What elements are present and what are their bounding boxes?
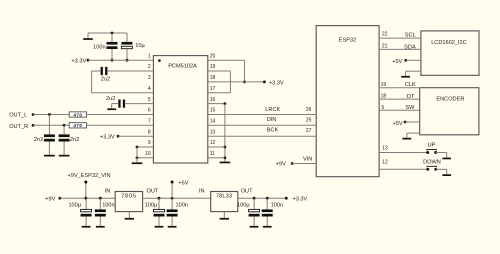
svg-text:+3.3V: +3.3V bbox=[71, 59, 86, 65]
svg-text:2u2: 2u2 bbox=[106, 96, 115, 102]
svg-text:18: 18 bbox=[210, 75, 216, 81]
svg-text:7: 7 bbox=[148, 119, 151, 125]
svg-text:+5V: +5V bbox=[392, 59, 402, 65]
svg-text:470: 470 bbox=[73, 123, 82, 128]
svg-text:+9V_ESP32_VIN: +9V_ESP32_VIN bbox=[67, 173, 110, 179]
svg-text:OUT_R: OUT_R bbox=[9, 124, 28, 130]
svg-text:1: 1 bbox=[148, 53, 151, 59]
svg-text:IN: IN bbox=[199, 188, 205, 194]
svg-text:+3.3V: +3.3V bbox=[269, 81, 284, 87]
svg-text:PCM5102A: PCM5102A bbox=[168, 64, 197, 70]
svg-text:VIN: VIN bbox=[303, 156, 312, 162]
svg-text:15: 15 bbox=[210, 108, 216, 114]
svg-text:19: 19 bbox=[381, 82, 387, 88]
svg-text:9: 9 bbox=[148, 140, 151, 146]
svg-text:13: 13 bbox=[210, 129, 216, 135]
svg-text:BCK: BCK bbox=[267, 127, 279, 133]
svg-text:UP: UP bbox=[428, 143, 436, 149]
svg-text:11: 11 bbox=[210, 151, 215, 157]
svg-text:12: 12 bbox=[210, 140, 216, 146]
svg-text:OUT: OUT bbox=[241, 189, 253, 195]
svg-text:6: 6 bbox=[148, 108, 151, 114]
svg-text:25: 25 bbox=[306, 117, 312, 123]
svg-text:100µ: 100µ bbox=[145, 203, 158, 209]
svg-text:18: 18 bbox=[381, 94, 387, 100]
svg-text:17: 17 bbox=[210, 86, 216, 92]
svg-text:5: 5 bbox=[382, 105, 385, 111]
svg-text:3: 3 bbox=[148, 75, 151, 81]
svg-text:5: 5 bbox=[148, 97, 151, 103]
svg-text:100n: 100n bbox=[102, 203, 114, 209]
svg-text:10: 10 bbox=[145, 151, 151, 157]
svg-text:14: 14 bbox=[210, 119, 216, 125]
svg-text:DIN: DIN bbox=[267, 117, 277, 123]
svg-text:13: 13 bbox=[382, 146, 388, 152]
svg-text:21: 21 bbox=[382, 43, 388, 49]
svg-text:100µ: 100µ bbox=[68, 203, 81, 209]
svg-text:4: 4 bbox=[148, 86, 151, 92]
svg-text:IN: IN bbox=[105, 188, 111, 194]
svg-text:12: 12 bbox=[382, 159, 388, 165]
svg-text:OUT: OUT bbox=[147, 189, 159, 195]
svg-text:470: 470 bbox=[73, 112, 82, 117]
svg-text:+5V: +5V bbox=[178, 180, 188, 186]
svg-text:SCL: SCL bbox=[405, 33, 416, 39]
svg-text:100n: 100n bbox=[271, 203, 283, 209]
svg-text:DOWN: DOWN bbox=[423, 159, 441, 165]
svg-text:2n2: 2n2 bbox=[70, 137, 79, 143]
svg-text:8: 8 bbox=[148, 129, 151, 135]
svg-text:CLK: CLK bbox=[405, 82, 416, 88]
svg-text:100n: 100n bbox=[93, 45, 105, 51]
svg-text:2u2: 2u2 bbox=[101, 77, 110, 83]
svg-text:10µ: 10µ bbox=[135, 43, 145, 49]
svg-text:19: 19 bbox=[210, 64, 216, 70]
svg-text:26: 26 bbox=[306, 107, 312, 113]
svg-text:16: 16 bbox=[210, 97, 216, 103]
svg-text:SDA: SDA bbox=[404, 44, 416, 50]
svg-text:+9V: +9V bbox=[45, 196, 55, 202]
svg-text:100n: 100n bbox=[176, 203, 188, 209]
svg-text:+3.3V: +3.3V bbox=[100, 135, 115, 141]
svg-text:2n2: 2n2 bbox=[34, 137, 43, 143]
svg-text:ESP32: ESP32 bbox=[339, 37, 356, 43]
svg-text:SW: SW bbox=[405, 105, 415, 111]
svg-text:LCD1602_I2C: LCD1602_I2C bbox=[431, 40, 466, 46]
svg-text:+9V: +9V bbox=[276, 161, 286, 167]
svg-text:+3.3V: +3.3V bbox=[293, 197, 308, 203]
svg-text:OUT_L: OUT_L bbox=[9, 112, 27, 118]
svg-text:27: 27 bbox=[306, 128, 312, 134]
svg-text:2: 2 bbox=[148, 64, 151, 70]
svg-text:20: 20 bbox=[210, 53, 216, 59]
svg-text:22: 22 bbox=[382, 32, 388, 38]
svg-text:+5V: +5V bbox=[392, 121, 402, 127]
svg-text:78L33: 78L33 bbox=[216, 194, 232, 200]
svg-text:7805: 7805 bbox=[121, 194, 137, 200]
svg-text:100µ: 100µ bbox=[237, 203, 250, 209]
svg-text:ENCODER: ENCODER bbox=[436, 96, 464, 102]
svg-text:DT: DT bbox=[407, 94, 415, 100]
svg-text:LRCK: LRCK bbox=[265, 107, 280, 113]
